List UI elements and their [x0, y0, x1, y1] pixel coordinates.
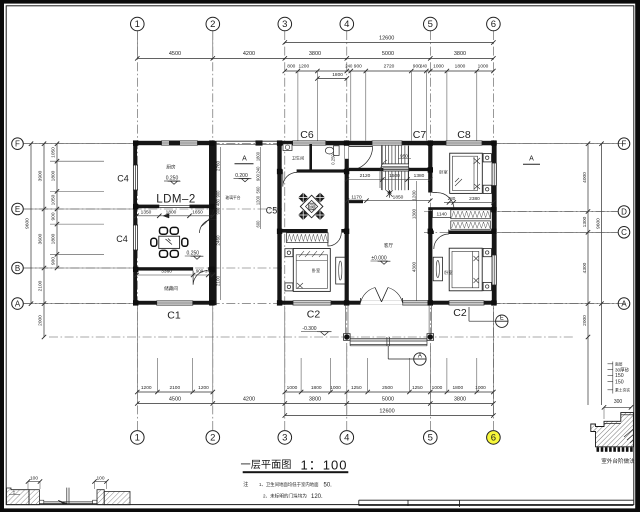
kitchen dims 1350 1800 1650: [137, 215, 213, 217]
svg-text:4500: 4500: [169, 51, 181, 57]
title block top lines: [359, 499, 634, 501]
top dimension line spans 4500 4200 3800 5000 3800: [137, 57, 493, 59]
bed bottom-right bedroom: [449, 248, 482, 291]
svg-text:1：100: 1：100: [301, 458, 348, 473]
column line 5 wall mid: [428, 171, 432, 192]
svg-text:2720: 2720: [384, 64, 395, 70]
svg-text:1500: 1500: [389, 173, 400, 179]
grid centerline row E: [24, 208, 283, 210]
grid centerline row B: [24, 267, 283, 269]
bottom dimension 12600: [285, 415, 494, 417]
svg-text:-0.300: -0.300: [302, 326, 316, 332]
svg-text:2000: 2000: [582, 315, 588, 326]
svg-text:3: 3: [282, 19, 287, 30]
column line 5 wall upper: [428, 145, 432, 168]
step detail profile: [591, 413, 634, 447]
svg-text:1800: 1800: [51, 233, 57, 244]
svg-text:1000: 1000: [433, 64, 444, 70]
svg-text:280: 280: [448, 196, 456, 201]
wardrobe band bedroom1 (below row C wall): [287, 233, 329, 243]
svg-text:2000: 2000: [38, 315, 44, 326]
svg-text:1000: 1000: [287, 385, 298, 391]
svg-text:5000: 5000: [382, 397, 394, 403]
svg-text:卧室: 卧室: [439, 169, 447, 176]
svg-text:1050: 1050: [51, 194, 57, 205]
svg-text:客厅: 客厅: [384, 242, 394, 249]
left block top wall: [133, 141, 215, 145]
svg-text:4: 4: [344, 19, 349, 30]
svg-text:1200: 1200: [411, 190, 416, 201]
svg-text:2、未标明的门垛均为: 2、未标明的门垛均为: [263, 493, 307, 500]
grid bubbles left F E B A: [12, 138, 24, 150]
svg-text:±0.000: ±0.000: [371, 256, 386, 262]
stair arrow curve: [380, 160, 387, 188]
svg-text:1850: 1850: [393, 194, 404, 200]
wardrobe bands right (row D-C): [451, 210, 491, 219]
svg-text:240: 240: [255, 166, 260, 174]
svg-text:0.250: 0.250: [166, 176, 179, 182]
svg-text:卫生间: 卫生间: [292, 155, 305, 162]
storage door arc: [193, 271, 208, 285]
staircase upper flight risers: [381, 146, 383, 164]
middle block bottom wall: [277, 301, 496, 305]
svg-text:1200: 1200: [255, 195, 260, 205]
svg-text:4300: 4300: [582, 262, 588, 273]
svg-text:1200: 1200: [298, 64, 309, 70]
window C2 bottom-right: [449, 301, 484, 305]
svg-text:2: 2: [210, 19, 215, 30]
bathroom inner partition: [309, 144, 312, 170]
svg-text:2760: 2760: [215, 160, 220, 171]
svg-text:900: 900: [51, 212, 57, 220]
bottom dimension line spans: [137, 403, 493, 405]
grid centerline row F: [24, 143, 629, 145]
svg-text:B: B: [15, 264, 20, 273]
left dimension lines 9600 tier: [30, 144, 32, 304]
corridor top edge line: [217, 140, 277, 142]
left block bottom wall: [133, 301, 216, 305]
svg-text:900: 900: [215, 190, 220, 198]
corridor vertical dim stack 2760/900/480/900/2460/2100: [220, 147, 222, 300]
svg-text:1250: 1250: [412, 385, 423, 391]
entry double door arcs: [361, 288, 376, 303]
svg-text:3600: 3600: [38, 233, 44, 244]
staircase direction arrow with cross: [389, 191, 391, 198]
sill detail channel floor: [39, 501, 97, 503]
entry double door opening: [361, 301, 403, 305]
svg-text:0.250: 0.250: [331, 154, 336, 165]
bottom dimension small splits row: [137, 391, 213, 393]
svg-text:1800: 1800: [255, 151, 260, 161]
svg-text:素土夯实: 素土夯实: [615, 387, 630, 392]
left witness lines: [24, 143, 134, 145]
grid centerline row A: [24, 303, 629, 305]
svg-text:1000: 1000: [432, 385, 443, 391]
svg-text:1800: 1800: [311, 385, 322, 391]
grid centerlines vertical 1-6: [136, 31, 138, 431]
section symbol A below porch: [387, 346, 389, 359]
svg-text:1800: 1800: [51, 170, 57, 181]
svg-text:1800: 1800: [332, 72, 343, 78]
top dimension 1800 sub-line: [317, 78, 346, 80]
dims 1170 1850: [347, 200, 430, 202]
svg-text:1、卫生间地面均低于室内地面: 1、卫生间地面均低于室内地面: [259, 481, 319, 488]
window C4 lower on west wall: [133, 225, 137, 250]
svg-text:1300: 1300: [411, 208, 416, 219]
svg-text:4: 4: [344, 432, 349, 443]
wall kitchen/dining with LDM-2 opening: [136, 205, 159, 209]
svg-text:900: 900: [354, 64, 362, 70]
svg-text:3800: 3800: [309, 397, 321, 403]
staircase lower flight risers: [381, 171, 383, 190]
svg-text:600: 600: [255, 220, 260, 228]
svg-text:C7: C7: [413, 129, 427, 141]
svg-text:C: C: [621, 228, 627, 237]
svg-text:100: 100: [30, 475, 38, 481]
sill detail left mass: [7, 488, 30, 505]
hall vertical dim stack 1200/1300/4300: [416, 181, 418, 301]
window C1 bottom: [157, 301, 193, 305]
middle block top wall: [277, 141, 496, 146]
bedroom2 door arc: [434, 234, 449, 249]
wall bathroom/mahjong divider: [277, 169, 283, 172]
svg-text:150: 150: [615, 379, 624, 385]
svg-text:4300: 4300: [411, 261, 416, 272]
svg-text:1000: 1000: [478, 64, 489, 70]
svg-text:2380: 2380: [469, 196, 480, 202]
svg-text:C2: C2: [307, 309, 321, 321]
svg-text:12600: 12600: [379, 409, 394, 415]
svg-text:9600: 9600: [25, 218, 31, 229]
svg-text:0.250: 0.250: [187, 251, 200, 257]
staircase enclosure: [381, 146, 383, 190]
row C wall right part: [428, 231, 434, 235]
svg-text:50.: 50.: [324, 483, 333, 489]
grid bubbles bottom 1-6, no.6 highlighted yellow: [131, 431, 145, 445]
wall stub under stairs with 1170: [349, 200, 363, 203]
svg-text:A: A: [418, 354, 422, 360]
svg-text:C8: C8: [457, 129, 471, 141]
grid centerline row D: [424, 211, 618, 213]
corridor vertical dim stack 1800/240/900/560/1200/600: [260, 147, 262, 229]
grid centerline row C: [424, 231, 618, 233]
svg-text:300: 300: [614, 399, 623, 405]
sill detail drop rod with arrow: [66, 488, 68, 504]
svg-text:卧室: 卧室: [312, 267, 320, 274]
svg-text:室外台阶做法: 室外台阶做法: [601, 457, 635, 465]
svg-text:卧室: 卧室: [444, 269, 452, 276]
grid bubbles top 1-6: [131, 17, 145, 31]
row D wall right part: [428, 207, 496, 210]
dims 280 2380: [444, 201, 493, 203]
opening band in hall/living divider: [383, 168, 409, 171]
left block east wall (corridor wall): [209, 141, 217, 305]
svg-text:面层: 面层: [615, 361, 623, 366]
svg-text:A: A: [242, 156, 247, 163]
svg-text:240: 240: [345, 64, 353, 69]
row C wall left part: [277, 229, 327, 233]
svg-text:3800: 3800: [454, 397, 466, 403]
svg-text:0.200: 0.200: [235, 173, 248, 179]
stair hall door at col4: [349, 145, 373, 147]
svg-text:2100: 2100: [38, 280, 44, 291]
kitchen top window LDM: [162, 141, 198, 145]
svg-text:A: A: [621, 299, 627, 308]
window C2 bottom-left: [293, 301, 331, 305]
corridor top column: [256, 140, 263, 145]
svg-text:E: E: [15, 205, 20, 214]
window C4 upper on west wall: [133, 165, 137, 190]
svg-text:1000: 1000: [330, 385, 341, 391]
middle block west wall: [277, 141, 281, 305]
svg-text:9600: 9600: [596, 218, 602, 229]
top dimension line 12600: [285, 42, 494, 44]
porch step divider: [386, 337, 388, 346]
svg-text:2500: 2500: [382, 385, 393, 391]
svg-text:C5: C5: [266, 206, 278, 216]
svg-text:1300: 1300: [582, 216, 588, 227]
svg-text:F: F: [622, 140, 627, 149]
svg-text:150: 150: [615, 373, 624, 379]
svg-text:1: 1: [135, 432, 140, 443]
svg-text:1650: 1650: [192, 209, 203, 215]
svg-text:1350: 1350: [141, 209, 152, 215]
middle block east wall: [492, 141, 497, 305]
nightstands bedroom1: [285, 249, 293, 257]
svg-text:900: 900: [255, 173, 260, 181]
svg-text:5: 5: [428, 432, 433, 443]
svg-text:1: 1: [135, 19, 140, 30]
svg-text:C4: C4: [117, 174, 129, 184]
bathroom washbasin: [283, 144, 292, 151]
porch columns: [344, 334, 351, 341]
storage dims 3360 900 240: [137, 274, 213, 276]
bed top-right room C8: [450, 153, 483, 193]
svg-text:4200: 4200: [243, 51, 255, 57]
svg-text:2: 2: [210, 432, 215, 443]
dresser bedroom2: [433, 257, 442, 281]
svg-text:240: 240: [420, 64, 428, 69]
C8 room door arc: [437, 193, 454, 210]
bathroom toilet: [334, 146, 340, 156]
svg-text:2100: 2100: [169, 385, 180, 391]
svg-text:12600: 12600: [379, 36, 394, 42]
bathroom door arc: [283, 172, 297, 186]
svg-text:5: 5: [428, 19, 433, 30]
window C7 top (stairwell): [372, 141, 402, 145]
svg-text:5000: 5000: [382, 51, 394, 57]
bedroom1 door arc: [328, 233, 341, 246]
wall dining/storage: [136, 267, 193, 270]
svg-text:560: 560: [255, 186, 260, 194]
svg-text:950: 950: [400, 153, 408, 158]
svg-text:1380: 1380: [414, 173, 425, 179]
svg-text:C2: C2: [453, 307, 467, 319]
svg-text:900: 900: [215, 207, 220, 215]
svg-text:6: 6: [491, 432, 496, 443]
box dim 1140: [433, 210, 452, 218]
svg-text:2120: 2120: [360, 173, 371, 179]
sill detail right mass: [104, 492, 130, 505]
svg-text:1800: 1800: [452, 385, 463, 391]
svg-text:900: 900: [196, 269, 204, 274]
bed bottom-left bedroom: [293, 249, 330, 292]
svg-text:4000: 4000: [582, 172, 588, 183]
bottom witness lines: [136, 305, 138, 404]
svg-text:4500: 4500: [169, 397, 181, 403]
step detail slope hatch: [624, 429, 633, 443]
east wall window upper: [492, 163, 496, 186]
window C8 top: [446, 141, 482, 145]
sill detail left curb: [29, 490, 39, 505]
svg-text:2100: 2100: [215, 275, 220, 286]
svg-text:A: A: [15, 299, 21, 308]
svg-text:3800: 3800: [454, 51, 466, 57]
step detail dentils: [597, 447, 600, 452]
structural columns: [133, 140, 138, 145]
sheet border frame: [0, 0, 640, 4]
nightstands bedroom2: [483, 248, 491, 256]
svg-text:储藏间: 储藏间: [164, 285, 178, 292]
svg-text:2460: 2460: [215, 235, 220, 246]
step detail leader line and layer notes: [612, 362, 614, 394]
mahjong table rotated square with four chairs: [298, 193, 308, 203]
svg-text:240: 240: [205, 270, 211, 274]
svg-text:1250: 1250: [351, 385, 362, 391]
svg-text:网: 网: [309, 205, 314, 211]
top witness lines: [297, 71, 299, 141]
svg-text:E: E: [500, 316, 504, 322]
svg-text:1140: 1140: [437, 212, 448, 218]
porch edge beams: [350, 338, 427, 340]
column line 4 wall: [345, 141, 349, 305]
svg-text:C6: C6: [300, 129, 314, 141]
svg-text:120.: 120.: [311, 494, 323, 500]
corridor big door arc: [201, 191, 216, 226]
stair dims 2120 1500 1380: [347, 179, 430, 181]
wall hall/living divider: [349, 168, 431, 171]
svg-text:注: 注: [243, 481, 248, 488]
svg-text:厨房: 厨房: [166, 164, 176, 171]
nightstands C8: [483, 154, 491, 162]
svg-text:480: 480: [215, 198, 220, 206]
window C6 top: [293, 141, 326, 145]
top dimension line small splits: [285, 70, 494, 72]
sill detail right curb: [97, 490, 104, 505]
dresser bedroom1: [336, 257, 345, 284]
svg-text:A: A: [529, 156, 534, 163]
svg-text:3800: 3800: [309, 51, 321, 57]
right witness lines: [497, 143, 618, 145]
svg-text:4200: 4200: [243, 397, 255, 403]
window bottom right of door: [403, 301, 428, 305]
svg-text:F: F: [15, 140, 20, 149]
svg-text:1200: 1200: [198, 385, 209, 391]
column line 5 wall lower: [428, 211, 432, 305]
svg-text:6: 6: [491, 19, 496, 30]
dining table with six chairs: [159, 236, 180, 248]
svg-text:C4: C4: [116, 234, 128, 244]
svg-text:1170: 1170: [351, 194, 362, 200]
svg-text:1800: 1800: [455, 64, 466, 70]
svg-text:800: 800: [287, 64, 295, 70]
svg-text:LDM–2: LDM–2: [156, 194, 196, 206]
svg-text:1050: 1050: [51, 147, 57, 158]
svg-text:玻璃平台: 玻璃平台: [225, 195, 240, 200]
right dimension lines: [587, 144, 589, 405]
porch level centerline: [49, 336, 575, 338]
svg-text:C1: C1: [167, 310, 181, 322]
svg-text:900: 900: [51, 257, 57, 265]
svg-text:100: 100: [96, 475, 104, 481]
corridor door arc to dining: [200, 220, 213, 234]
svg-text:一层平面图: 一层平面图: [241, 459, 292, 471]
svg-text:3360: 3360: [161, 269, 172, 275]
grid bubbles right F D C A: [618, 138, 630, 150]
section symbol E right: [468, 307, 470, 321]
svg-text:3: 3: [282, 432, 287, 443]
svg-text:1200: 1200: [141, 385, 152, 391]
stair landing rail band: [382, 163, 409, 165]
east wall window lower: [492, 255, 496, 285]
svg-text:3900: 3900: [38, 170, 44, 181]
left block west wall: [133, 141, 137, 305]
svg-text:D: D: [621, 207, 627, 216]
